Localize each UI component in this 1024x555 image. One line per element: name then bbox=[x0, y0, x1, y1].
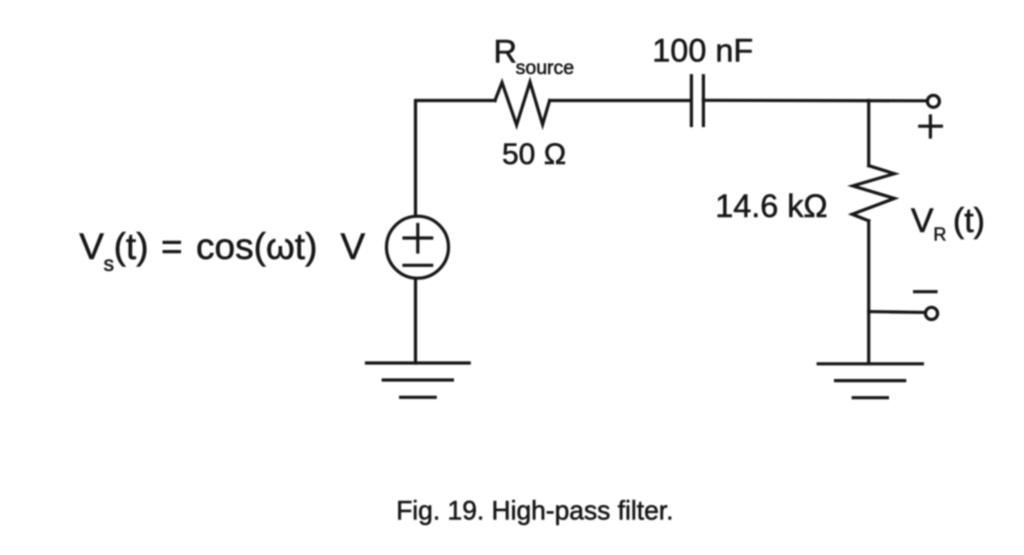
value 100 nF bbox=[652, 32, 753, 68]
svg-text:100 nF: 100 nF bbox=[652, 32, 753, 68]
svg-text:source: source bbox=[516, 57, 575, 79]
svg-text:(t): (t) bbox=[114, 226, 149, 267]
ground (left, under source) bbox=[367, 363, 470, 397]
svg-text:14.6 kΩ: 14.6 kΩ bbox=[715, 188, 827, 224]
capacitor C1 left plate bbox=[690, 76, 693, 126]
svg-text:(t): (t) bbox=[953, 202, 985, 240]
plus sign inside source bbox=[404, 225, 432, 253]
ground (right, under R_load) bbox=[818, 364, 922, 398]
svg-text:V: V bbox=[341, 226, 366, 267]
wire: capacitor to output node and + terminal bbox=[703, 99, 926, 103]
wire: R_source to capacitor bbox=[550, 99, 692, 102]
svg-text:V: V bbox=[911, 202, 934, 240]
wire: R_load bottom to ground bbox=[867, 221, 870, 364]
capacitor C1 right plate bbox=[702, 76, 705, 126]
svg-text:s: s bbox=[104, 253, 115, 276]
label V_R(t) bbox=[911, 202, 985, 245]
wire: top-left horizontal from source branch to R_source bbox=[416, 101, 496, 217]
plus sign at output terminal bbox=[920, 116, 942, 137]
svg-text:R: R bbox=[494, 33, 517, 69]
node: output junction wire down to R_load bbox=[867, 101, 870, 166]
svg-text:R: R bbox=[933, 225, 946, 245]
resistor R1 (R_source) zigzag bbox=[495, 82, 550, 125]
terminal circle + (top right) bbox=[927, 95, 939, 107]
svg-text:cos(ωt): cos(ωt) bbox=[196, 226, 317, 267]
source equation V_s(t) = cos(wt) V bbox=[79, 226, 365, 276]
wire: branch to − terminal bbox=[869, 310, 924, 314]
minus sign inside source bbox=[404, 264, 432, 267]
svg-text:50 Ω: 50 Ω bbox=[502, 138, 566, 171]
caption Fig. 19 bbox=[396, 495, 673, 525]
value 14.6 kOhm bbox=[715, 188, 827, 224]
terminal circle − (bottom right) bbox=[925, 307, 937, 319]
svg-text:=: = bbox=[161, 226, 183, 267]
wire: source bottom to ground bbox=[414, 279, 417, 364]
label R_source bbox=[494, 33, 575, 79]
voltage source circle bbox=[387, 216, 449, 278]
svg-text:Fig. 19. High-pass filter.: Fig. 19. High-pass filter. bbox=[396, 495, 673, 525]
resistor R2 (14.6 k) vertical zigzag bbox=[852, 166, 894, 221]
svg-text:V: V bbox=[79, 226, 104, 267]
value 50 Ohm bbox=[502, 138, 566, 171]
minus sign at output terminal bbox=[915, 290, 936, 293]
